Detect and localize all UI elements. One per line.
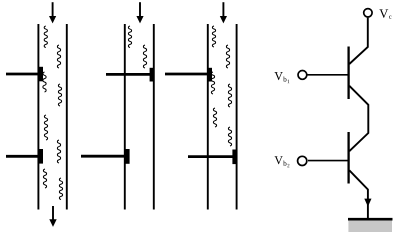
photon squiggle 2-1	[128, 26, 131, 47]
wire left channel line 2	[124, 24, 126, 210]
contact pad 3B	[232, 150, 236, 165]
ground slab	[348, 221, 392, 233]
photon squiggle 1-1	[44, 26, 47, 47]
contact pad 2A	[150, 68, 154, 82]
input photon arrow 3	[220, 2, 227, 23]
photon squiggle 3-5	[213, 108, 216, 127]
wire right channel line 2	[153, 24, 155, 210]
photon squiggle 3-3	[211, 72, 214, 94]
transistor Q2 base bar	[347, 132, 349, 184]
wire collector Q1	[349, 18, 368, 64]
input photon arrow 2	[136, 2, 143, 23]
contact lead 1B	[6, 155, 41, 158]
contact pad 2B	[125, 149, 129, 164]
contact lead 3B	[188, 155, 235, 158]
photon squiggle 2-2	[143, 45, 146, 68]
terminal Vc	[364, 9, 372, 17]
photon squiggle 1-8	[59, 178, 62, 199]
label Vb1	[274, 72, 289, 83]
wire emitter Q1 to collector Q2	[349, 86, 368, 151]
transistor Q1 base bar	[347, 47, 349, 100]
photon squiggle 3-1	[212, 26, 215, 47]
wire base Q2	[308, 160, 348, 162]
contact lead 2A	[106, 73, 153, 76]
label Vb2	[274, 156, 289, 167]
ground bar	[348, 218, 393, 221]
photon squiggle 3-6	[228, 127, 231, 146]
photon squiggle 1-2	[57, 45, 60, 68]
wire right channel line 1	[66, 24, 68, 210]
contact lead 3A	[165, 73, 211, 76]
terminal Vb2	[298, 156, 307, 165]
contact lead 2B	[81, 155, 128, 158]
photon squiggle 3-4	[228, 84, 231, 107]
wire left channel line 1	[37, 24, 39, 210]
photon squiggle 1-6	[57, 140, 60, 163]
label Vc	[379, 9, 391, 18]
wire right channel line 3	[236, 24, 238, 210]
input photon arrow 1	[49, 2, 56, 23]
photon squiggle 1-5	[44, 115, 47, 140]
emitter current arrow	[364, 199, 371, 207]
contact pad 1B	[39, 149, 43, 164]
contact lead 1A	[6, 73, 41, 76]
photon squiggle 1-7	[43, 169, 46, 188]
terminal Vb1	[298, 71, 307, 80]
photon squiggle 1-3	[43, 72, 46, 92]
wire base Q1	[308, 74, 349, 76]
photon squiggle 1-4	[58, 84, 61, 106]
photon squiggle 3-2	[226, 45, 229, 68]
contact pad 1A	[39, 67, 43, 82]
wire left channel line 3	[207, 24, 209, 210]
output photon arrow 1	[49, 206, 56, 227]
wire emitter Q2	[349, 170, 368, 219]
contact pad 3A	[208, 68, 212, 82]
